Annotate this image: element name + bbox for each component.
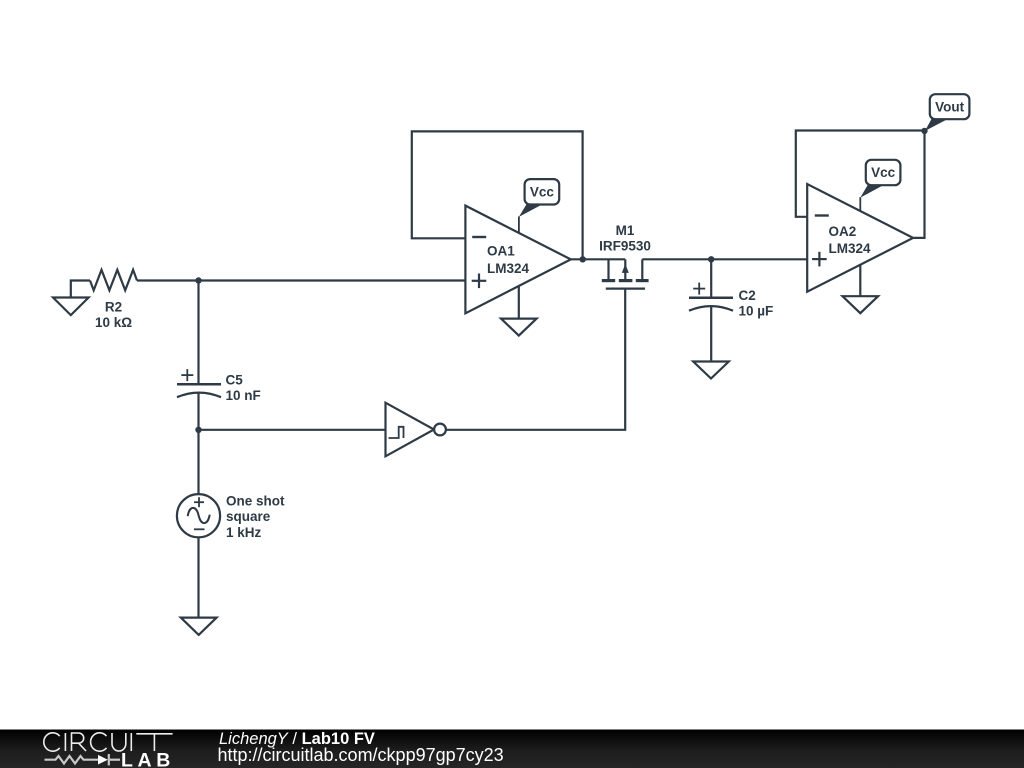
svg-text:10 kΩ: 10 kΩ xyxy=(95,315,132,330)
logo resistor-diode glyph xyxy=(45,754,121,765)
wire xyxy=(571,258,625,260)
logo LAB text xyxy=(121,749,175,768)
svg-text:10 nF: 10 nF xyxy=(226,388,261,403)
footer url xyxy=(218,745,504,765)
svg-text:http://circuitlab.com/ckpp97gp: http://circuitlab.com/ckpp97gp7cy23 xyxy=(218,745,504,765)
power flag Vcc (OA2) xyxy=(860,160,900,212)
svg-text:M1: M1 xyxy=(616,223,635,238)
ground (OA2) xyxy=(843,265,879,313)
wire xyxy=(710,306,712,361)
op-amp OA1 xyxy=(465,206,570,314)
ground (V1) xyxy=(181,618,217,635)
voltage source V1 xyxy=(177,493,285,539)
CircuitLab logo xyxy=(44,733,173,751)
svg-text:OA2: OA2 xyxy=(829,224,857,239)
node xyxy=(195,427,201,433)
svg-text:LAB: LAB xyxy=(121,749,175,768)
net flag Vout xyxy=(925,94,969,131)
inverter X1 xyxy=(386,403,446,457)
svg-text:C2: C2 xyxy=(739,288,756,303)
wire xyxy=(710,259,712,298)
svg-text:10 µF: 10 µF xyxy=(739,304,774,319)
footer title xyxy=(219,730,375,748)
ground (OA1) xyxy=(501,286,537,336)
power flag Vcc (OA1) xyxy=(519,179,559,233)
node xyxy=(195,277,201,283)
node xyxy=(921,128,927,134)
wire (OA1 feedback) xyxy=(412,131,583,259)
svg-text:LM324: LM324 xyxy=(487,261,530,276)
op-amp OA2 xyxy=(807,184,913,292)
capacitor C5 xyxy=(177,369,261,403)
ground (C2) xyxy=(693,362,729,379)
svg-text:1 kHz: 1 kHz xyxy=(226,525,262,540)
wire xyxy=(199,429,386,431)
transistor M1 xyxy=(599,223,651,289)
svg-text:Vcc: Vcc xyxy=(871,165,896,180)
svg-text:C5: C5 xyxy=(226,373,244,388)
svg-text:Vout: Vout xyxy=(935,99,964,114)
wire xyxy=(446,290,625,430)
node xyxy=(580,256,586,262)
svg-text:One shot: One shot xyxy=(226,493,285,508)
wire xyxy=(197,393,199,495)
svg-text:R2: R2 xyxy=(105,300,122,315)
svg-text:Vcc: Vcc xyxy=(530,184,555,199)
wire xyxy=(642,258,807,260)
resistor R2 xyxy=(90,270,137,330)
node xyxy=(708,256,714,262)
ground (R2) xyxy=(53,281,90,316)
wire (OA2 feedback) xyxy=(796,131,925,238)
wire xyxy=(137,279,465,281)
wire xyxy=(197,537,199,617)
svg-text:square: square xyxy=(226,509,271,524)
svg-text:OA1: OA1 xyxy=(487,244,515,259)
wire xyxy=(197,281,199,385)
capacitor C2 xyxy=(689,283,773,319)
footer bar xyxy=(0,730,1024,768)
svg-text:IRF9530: IRF9530 xyxy=(599,239,651,254)
svg-text:LM324: LM324 xyxy=(829,241,872,256)
